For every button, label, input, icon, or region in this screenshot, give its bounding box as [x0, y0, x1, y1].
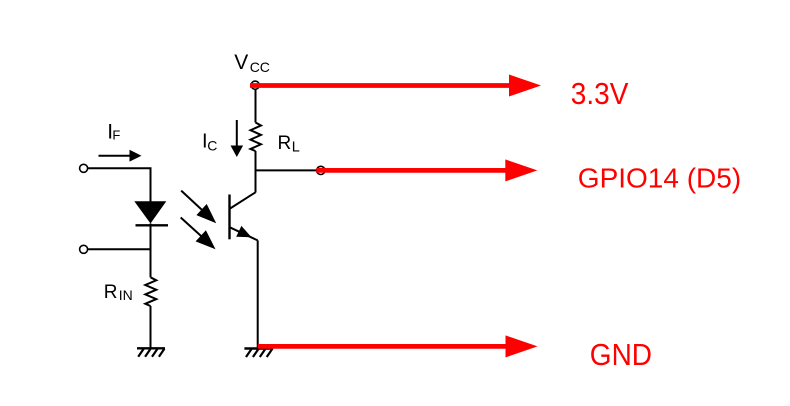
wire RIN to ground [150, 306, 152, 348]
resistor RL [251, 123, 262, 152]
ground rail GND red arrow [258, 335, 538, 357]
svg-text:R: R [104, 282, 118, 303]
node GPIO [317, 166, 325, 174]
svg-text:GPIO14 (D5): GPIO14 (D5) [578, 162, 741, 193]
ground right [244, 349, 273, 358]
svg-text:CC: CC [250, 59, 270, 75]
label RIN [104, 282, 133, 303]
svg-text:L: L [292, 140, 300, 156]
light arrow 1 [181, 191, 216, 224]
svg-text:C: C [207, 138, 217, 154]
wire T2 to cathode junction [88, 248, 151, 250]
svg-text:R: R [278, 133, 292, 154]
label VCC [234, 51, 270, 75]
node VCC [251, 81, 259, 89]
transistor Q1 phototransistor [230, 192, 258, 240]
ground left [137, 348, 165, 357]
wire Vcc node to RL top [255, 85, 257, 123]
svg-text:GND: GND [590, 338, 652, 372]
label IC [202, 131, 217, 154]
current arrow IC [231, 120, 244, 157]
wire LED cathode to RIN [150, 224, 152, 278]
svg-text:F: F [112, 127, 120, 142]
wire emitter to ground [257, 240, 259, 348]
terminal T1 [80, 164, 88, 172]
power rail 3.3V red arrow [250, 75, 541, 97]
svg-text:IN: IN [119, 287, 133, 303]
current arrow IF [99, 150, 142, 162]
LED D1 [134, 201, 168, 225]
svg-text:V: V [234, 51, 248, 74]
terminal T2 [80, 245, 88, 253]
signal line GPIO red arrow [316, 159, 537, 181]
wire RL bottom to collector [255, 151, 257, 193]
svg-text:3.3V: 3.3V [571, 77, 629, 111]
wire collector node to GPIO node [256, 169, 317, 171]
light arrow 2 [181, 218, 216, 250]
wire T1 to LED anode [88, 168, 151, 201]
resistor RIN [145, 277, 156, 306]
label IF [107, 120, 120, 143]
label RL [278, 133, 300, 156]
